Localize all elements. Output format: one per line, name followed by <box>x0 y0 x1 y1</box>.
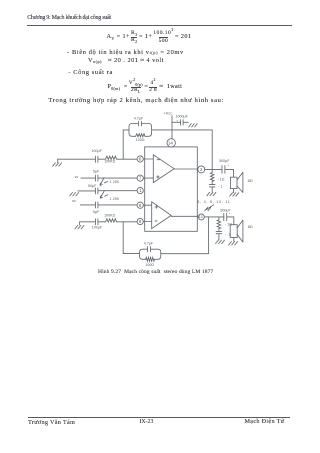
capacitor 100uF label (ch2) <box>92 226 103 230</box>
resistor 100ohm zigzag (top feedback) <box>136 134 145 137</box>
ground (1000uF) <box>189 124 198 127</box>
svg-text:1.25K: 1.25K <box>110 180 120 184</box>
input Vi2 label <box>72 199 76 203</box>
potentiometer 1.25K label (ch1) <box>110 180 120 184</box>
svg-text:5μF: 5μF <box>93 169 100 173</box>
resistor 100K (ch1) <box>106 156 117 159</box>
svg-text:2: 2 <box>200 167 203 172</box>
svg-text:5μF: 5μF <box>93 210 100 214</box>
svg-text:14: 14 <box>168 141 173 146</box>
wire resistor to pin6 <box>117 158 137 160</box>
svg-text:1.25K: 1.25K <box>110 197 120 201</box>
wire pin8 to op-amp B <box>144 204 152 206</box>
capacitor 1000uF label <box>176 114 189 122</box>
wire pin6 to op-amp A <box>144 158 154 160</box>
header text <box>27 15 111 21</box>
footer center <box>140 420 154 426</box>
line: Vo(p) <box>88 58 164 64</box>
footer left <box>28 420 75 426</box>
resistor 100ohm zigzag (bottom feedback) <box>146 257 155 261</box>
svg-text:4.7μF: 4.7μF <box>144 241 154 245</box>
resistor 100K label (ch2) <box>104 214 115 218</box>
wire ground to capacitor 100uF (ch1) <box>58 158 96 160</box>
op-amp A (top) <box>153 155 174 183</box>
wire capacitor 50uF to pin1 <box>98 190 137 192</box>
pin 1 <box>137 187 143 193</box>
svg-text:+: + <box>227 164 229 168</box>
pin 8 <box>137 202 143 208</box>
svg-text:6: 6 <box>139 157 142 162</box>
resistor 100ohm label (bottom) <box>145 263 154 267</box>
pin 13 <box>198 214 204 220</box>
resistor 100ohm label (top) <box>136 138 145 142</box>
wire capacitor to resistor (ch2) <box>98 221 106 223</box>
wire Vi1 to capacitor 5uF (ch1) <box>81 177 95 179</box>
pin 2 <box>198 166 205 173</box>
wire resistor to pin9 <box>117 221 137 223</box>
svg-text:vi1: vi1 <box>75 175 79 179</box>
svg-text:vi2: vi2 <box>72 199 76 203</box>
wire op-amp A output to pin 2 <box>174 168 197 170</box>
resistor 100K label (ch1) <box>104 160 115 164</box>
wire feedback bottom rail <box>161 217 209 254</box>
svg-text:500μF: 500μF <box>219 159 230 163</box>
ground (input bias ch1) <box>53 159 62 166</box>
figure caption <box>98 270 213 276</box>
ground (top speaker) <box>230 193 239 197</box>
wire capacitor 5uF to pin8 <box>98 204 137 206</box>
capacitor 5uF label (ch2) <box>93 210 100 214</box>
svg-text:+VCC: +VCC <box>164 112 173 116</box>
speaker A label 8 ohm <box>248 179 253 183</box>
svg-text:100μF: 100μF <box>92 226 103 230</box>
ground (top Zobel) <box>207 192 216 195</box>
capacitor 50uF (bias) plates <box>95 188 98 194</box>
Zobel capacitor 0.1uF (top) plates <box>209 185 215 192</box>
svg-text:13: 13 <box>199 215 203 219</box>
wire pin7 to op-amp A <box>144 177 154 179</box>
wire capacitor 5uF to pin7 <box>98 177 137 179</box>
capacitor 500uF (bottom) label <box>220 208 231 215</box>
wire speaker B to ground <box>233 238 235 242</box>
footer rule <box>28 416 290 419</box>
svg-text:100Ω: 100Ω <box>136 138 145 142</box>
Zobel resistor 1 ohm (top) <box>210 169 214 184</box>
wire pin9 to op-amp B <box>144 221 152 223</box>
wire 500uF to speaker A <box>225 169 234 177</box>
+Vcc supply label <box>164 112 173 116</box>
wire speaker A to ground <box>233 189 235 193</box>
svg-text:3, 4, 5, 10, 11: 3, 4, 5, 10, 11 <box>197 200 230 204</box>
resistor 100K (ch2) <box>106 219 117 222</box>
input Vi1 label <box>75 175 79 179</box>
svg-text:1: 1 <box>139 188 142 193</box>
svg-text:50μF: 50μF <box>88 184 97 188</box>
op-amp B (bottom) <box>152 202 172 229</box>
speaker 8 ohm (top) <box>230 177 237 188</box>
pin 6 <box>137 156 143 162</box>
capacitor 4.7uF label (top feedback) <box>134 117 144 121</box>
line: Trong truong hop <box>48 98 224 105</box>
feedback RC loop (bottom): frame <box>140 249 161 259</box>
wire pin2 to output node <box>205 168 223 170</box>
ground (input bias ch2) <box>75 222 84 229</box>
ground (bias pin1) <box>70 193 79 196</box>
formula Av <box>107 31 192 45</box>
wire pin13 to output node <box>205 216 224 218</box>
wire: top feedback left lead + left rail down to pin6 row <box>123 130 129 159</box>
schematic svg <box>0 0 320 300</box>
Zobel resistor 1 ohm (bottom) <box>217 217 221 231</box>
op-amp B plus input mark <box>155 206 158 209</box>
svg-text:+: + <box>229 211 231 215</box>
potentiometer 1.25K label (ch2) <box>110 197 120 201</box>
ground arrow (pins 3,4,5,10,11) <box>205 205 214 211</box>
Zobel capacitor 0.1uF label (bottom) <box>225 232 230 236</box>
capacitor 100uF (ch2) plates <box>95 219 98 225</box>
capacitor 100uF label (ch1) <box>92 149 103 153</box>
svg-text:100KΩ: 100KΩ <box>104 160 115 164</box>
feedback RC loop (top): frame <box>129 124 152 137</box>
capacitor 50uF label <box>88 184 97 188</box>
wire ground to capacitor 50uF <box>78 190 96 192</box>
wire 500uF to speaker B <box>227 217 234 225</box>
capacitor 100uF (ch1) plates <box>95 156 98 162</box>
op-amp A minus input mark <box>157 159 160 161</box>
pin 7 <box>137 175 143 181</box>
svg-text:- .1: - .1 <box>218 185 223 189</box>
Zobel resistor 1 ohm label (top) <box>218 177 225 181</box>
svg-text:100KΩ: 100KΩ <box>104 214 115 218</box>
Zobel capacitor 0.1uF label (top) <box>218 185 223 189</box>
capacitor 5uF (ch2) plates <box>95 202 98 208</box>
pin 14 <box>167 139 175 147</box>
ground (bottom speaker) <box>229 242 238 246</box>
svg-text:- 1Ω: - 1Ω <box>218 177 225 181</box>
capacitor 500uF (bottom) plates <box>224 213 227 220</box>
Zobel capacitor 0.1uF (bottom) plates <box>216 231 222 240</box>
op-amp A plus input mark <box>157 176 160 179</box>
potentiometer 1.25K (ch2) <box>100 191 108 198</box>
svg-text:4.7μF: 4.7μF <box>134 117 144 121</box>
speaker B label 8 ohm <box>248 225 253 229</box>
capacitor C 4.7uF plates (bottom) <box>147 247 150 252</box>
wire: bottom feedback left lead + left rail up to pin9 row <box>123 222 139 254</box>
header rule <box>27 25 292 26</box>
svg-text:8Ω: 8Ω <box>248 179 253 183</box>
Zobel resistor 1 ohm label (bottom) <box>225 222 232 226</box>
line: Bien do tin hieu <box>67 50 184 56</box>
svg-text:8: 8 <box>139 203 142 208</box>
capacitor 5uF (ch1) plates <box>95 175 98 181</box>
svg-text:7: 7 <box>139 176 142 181</box>
capacitor 1000uF leads and plates <box>172 120 188 125</box>
capacitor 5uF label (ch1) <box>93 169 100 173</box>
potentiometer 1.25K (ch1) <box>100 178 108 186</box>
formula Po(max) <box>108 79 183 96</box>
footer right <box>245 419 285 425</box>
wire: top feedback right lead + right rail down to pin2 output <box>152 130 213 170</box>
wire op-amp B output to pin 13 <box>171 215 198 217</box>
ground pins label 3,4,5,10,11 <box>197 200 230 204</box>
svg-text:100μF: 100μF <box>92 149 103 153</box>
svg-text:8Ω: 8Ω <box>248 225 253 229</box>
svg-text:- .1: - .1 <box>225 232 230 236</box>
IC LM1877 body <box>145 147 198 231</box>
ground (bottom Zobel) <box>216 240 225 244</box>
capacitor 500uF (top) label <box>219 159 230 168</box>
capacitor 4.7uF label (bottom feedback) <box>144 241 154 245</box>
wire Vi2 to capacitor 5uF (ch2) <box>80 204 95 206</box>
wire ground to capacitor 100uF (ch2) <box>80 221 96 223</box>
capacitor C 4.7uF plates (top) <box>138 121 141 126</box>
speaker 8 ohm (bottom) <box>230 225 237 238</box>
line: Cong suat ra <box>68 70 113 76</box>
svg-text:100Ω: 100Ω <box>145 263 154 267</box>
capacitor 500uF (top) plates <box>222 166 225 174</box>
wire: +Vcc down to pin 14 <box>171 116 173 139</box>
wire capacitor to resistor (ch1) <box>98 158 106 160</box>
op-amp B minus input mark <box>155 220 157 222</box>
pin 9 <box>137 218 143 224</box>
svg-text:9: 9 <box>139 219 142 224</box>
